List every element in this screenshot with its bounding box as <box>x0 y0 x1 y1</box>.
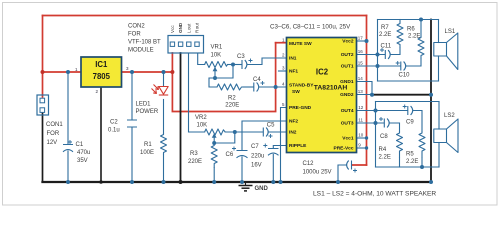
potentiometer VR1 wiper <box>214 71 216 79</box>
svg-text:R3: R3 <box>190 151 198 157</box>
svg-text:C5: C5 <box>267 123 275 129</box>
wire GND2 pin13 net (black) <box>372 94 431 96</box>
svg-text:FOR: FOR <box>128 32 141 38</box>
svg-text:16V: 16V <box>251 163 262 169</box>
svg-text:R4: R4 <box>379 147 387 153</box>
wire IC1 pin2 ground (black) <box>100 87 102 182</box>
capacitor C6 <box>237 151 248 158</box>
svg-text:CON1: CON1 <box>46 122 63 128</box>
svg-text:12V: 12V <box>47 140 58 146</box>
svg-text:Vcc2: Vcc2 <box>342 39 354 45</box>
svg-text:14: 14 <box>358 76 364 81</box>
svg-text:C8: C8 <box>380 134 388 140</box>
svg-text:OUT1: OUT1 <box>341 64 354 70</box>
capacitor C5 <box>263 128 268 137</box>
wire 12V to IC1 pin1 (red) <box>43 71 82 73</box>
wire LS1 bottom rail <box>378 80 439 82</box>
capacitor C11 <box>385 50 390 59</box>
svg-text:10: 10 <box>358 133 364 138</box>
node labels and component value texts <box>46 24 456 198</box>
svg-text:R2: R2 <box>228 96 236 102</box>
svg-text:SW: SW <box>292 89 300 95</box>
capacitor C9 <box>408 106 413 115</box>
svg-text:C11: C11 <box>381 44 392 50</box>
svg-text:470u: 470u <box>77 150 90 156</box>
wire IC2 pin11 stub <box>357 122 384 124</box>
wire C8 to R4 <box>390 123 400 131</box>
wire VR2 wiper loop <box>214 132 235 143</box>
capacitor C3 <box>242 60 247 69</box>
connector CON1 <box>37 95 49 115</box>
wire 5V rail from IC1 pin3 (red) <box>122 71 173 73</box>
wire R3 to bus <box>213 168 215 182</box>
svg-text:STAND-BY: STAND-BY <box>289 83 314 89</box>
wire ground bus (black) <box>43 181 432 183</box>
wire IC2 pin6 to C6 <box>242 121 287 150</box>
svg-text:Vcc1: Vcc1 <box>342 136 354 142</box>
svg-text:RIPPLE: RIPPLE <box>289 143 307 149</box>
wire R7 top <box>399 20 401 22</box>
svg-text:POWER: POWER <box>136 109 159 115</box>
svg-text:NF2: NF2 <box>289 119 298 125</box>
wire CON2 Rout to VR1 <box>198 53 205 65</box>
wire LS2 left vertical <box>375 102 377 168</box>
op-amp U1 power amplifier IC2 TA8210AH <box>282 36 364 153</box>
resistor R7 <box>397 21 403 48</box>
wire IC2 pin1 mute stub (red) <box>276 42 287 44</box>
wire CON2 Vcc drop and standby feed (red) <box>172 43 275 112</box>
wire IC2 pin15 stub <box>357 65 401 67</box>
capacitor C2 <box>127 120 137 127</box>
svg-text:220u: 220u <box>251 154 264 160</box>
wire C9 to R5 <box>413 111 422 132</box>
wire LS1 left vertical <box>377 20 379 82</box>
capacitor C4 <box>254 83 259 92</box>
wire LS2 top rail <box>376 101 440 103</box>
svg-text:C10: C10 <box>399 73 411 79</box>
wire C5 to IC2 pin7 <box>269 131 287 133</box>
wire C12 negative to bus <box>338 165 347 182</box>
svg-text:R6: R6 <box>407 27 415 33</box>
capacitor C7 <box>268 149 279 156</box>
connector CON2 <box>168 36 204 54</box>
svg-text:C9: C9 <box>406 120 414 126</box>
wire IC2 pin5 pre-gnd drop <box>281 108 287 183</box>
wire IC2 pin17 stub <box>357 40 367 42</box>
svg-text:7805: 7805 <box>93 72 111 81</box>
wire VR2 right end to C5 <box>225 131 263 133</box>
potentiometer VR1 <box>205 62 228 68</box>
svg-text:LS1: LS1 <box>445 29 456 35</box>
wire CON1 ground drop (black) <box>42 113 44 182</box>
wire C4 to standby node <box>260 86 287 88</box>
svg-text:R5: R5 <box>406 152 414 158</box>
svg-text:LED1: LED1 <box>136 102 152 108</box>
wire LS1 feed bottom <box>438 56 440 81</box>
svg-text:OUT4: OUT4 <box>341 108 354 114</box>
svg-text:GND: GND <box>255 186 269 192</box>
svg-text:LS2: LS2 <box>444 113 455 119</box>
svg-text:R1: R1 <box>144 142 152 148</box>
wire LED1 feed <box>163 72 165 86</box>
svg-text:GND: GND <box>178 22 183 33</box>
svg-text:2.2E: 2.2E <box>408 34 420 40</box>
capacitor C1 <box>63 145 73 152</box>
svg-text:2.2E: 2.2E <box>379 32 391 38</box>
wire C12 positive link (red) <box>352 164 367 166</box>
svg-text:VR2: VR2 <box>195 115 207 121</box>
svg-text:IN1: IN1 <box>289 56 297 62</box>
svg-text:17: 17 <box>358 36 364 41</box>
wire IC2 pin3 stub <box>279 70 287 72</box>
wire C10 to R6 <box>406 59 421 67</box>
svg-text:10K: 10K <box>197 123 208 129</box>
wire LS2 bottom rail <box>376 166 440 168</box>
svg-text:C12: C12 <box>303 161 315 167</box>
wire R2 to C4 <box>243 86 254 88</box>
svg-text:PRE-GND: PRE-GND <box>289 105 312 111</box>
svg-text:220E: 220E <box>188 159 202 165</box>
svg-text:IC1: IC1 <box>95 60 108 69</box>
IC1 pin number labels <box>75 66 129 94</box>
svg-text:C6: C6 <box>226 152 234 158</box>
capacitor C12 <box>347 161 352 170</box>
capacitor C8 <box>384 119 389 128</box>
wire CON2 GND drop (black) <box>180 53 182 182</box>
svg-text:MODULE: MODULE <box>128 48 154 54</box>
svg-text:2.2E: 2.2E <box>379 155 391 161</box>
LED1 <box>152 85 169 96</box>
wire C6 to bus <box>241 157 243 182</box>
wire IC2 pin10 stub <box>357 137 367 139</box>
resistor R2 <box>217 84 243 90</box>
svg-text:15: 15 <box>358 61 364 66</box>
wire C2 feed <box>131 72 133 182</box>
svg-text:CON2: CON2 <box>128 24 145 30</box>
svg-text:TA8210AH: TA8210AH <box>314 85 348 92</box>
wire C7 to bus <box>272 155 274 183</box>
regulator IC1 7805 <box>81 57 122 87</box>
resistor R3 <box>211 143 217 168</box>
ground symbol <box>239 182 253 191</box>
wire LS1 top rail <box>378 19 439 21</box>
svg-text:PRE-Vcc: PRE-Vcc <box>334 146 354 152</box>
svg-text:11: 11 <box>358 118 363 123</box>
wire Vcc right drop to IC2 (red) <box>366 16 368 166</box>
svg-text:12: 12 <box>358 105 364 110</box>
svg-text:LS1 – LS2 = 4-OHM, 10 WATT SPE: LS1 – LS2 = 4-OHM, 10 WATT SPEAKER <box>313 191 436 198</box>
svg-text:GND1: GND1 <box>340 79 354 85</box>
speaker LS1 <box>434 33 458 70</box>
wire C3 to IC2 pin2 <box>248 58 287 65</box>
svg-text:OUT3: OUT3 <box>341 121 354 127</box>
wire IC2 pin16 stub <box>357 54 385 56</box>
svg-text:NF1: NF1 <box>289 69 298 75</box>
svg-text:16: 16 <box>358 49 364 54</box>
svg-text:1000u 25V: 1000u 25V <box>303 170 332 176</box>
wire speaker return vertical (black) <box>430 20 432 183</box>
svg-text:FOR: FOR <box>47 131 60 137</box>
svg-text:VTF-108 BT: VTF-108 BT <box>128 40 161 46</box>
wire R1 to bus <box>163 155 165 182</box>
wire IC2 pin8 to C7 <box>273 146 286 149</box>
wire IC2 pin9 stub <box>357 147 367 149</box>
svg-text:R out: R out <box>195 22 200 33</box>
wire C11 to R7 <box>391 48 401 55</box>
svg-text:220E: 220E <box>225 103 239 109</box>
svg-text:OUT2: OUT2 <box>341 52 354 58</box>
svg-text:R7: R7 <box>381 25 389 31</box>
svg-text:Vcc: Vcc <box>170 25 175 33</box>
wire +12V top rail (red) <box>43 15 367 17</box>
svg-text:IC2: IC2 <box>316 68 329 77</box>
svg-text:GND2: GND2 <box>340 92 354 98</box>
svg-text:MUTE SW: MUTE SW <box>289 41 312 47</box>
wire IC2 pin13 stub <box>357 94 373 96</box>
svg-text:10K: 10K <box>211 53 222 59</box>
svg-text:IN2: IN2 <box>289 130 297 136</box>
resistor R1 <box>161 133 167 155</box>
resistor R6 <box>418 36 424 59</box>
wire LS1 feed top <box>438 20 440 43</box>
wire VR1 wiper loop <box>215 65 233 79</box>
svg-text:0.1u: 0.1u <box>108 128 120 134</box>
svg-text:C3–C6, C8–C11 = 100u, 25V: C3–C6, C8–C11 = 100u, 25V <box>270 24 351 31</box>
svg-text:C4: C4 <box>253 77 261 83</box>
svg-text:35V: 35V <box>77 158 88 164</box>
wire IC2 pin14 stub <box>357 82 373 95</box>
svg-text:100E: 100E <box>140 150 154 156</box>
svg-text:C2: C2 <box>110 120 118 126</box>
wire C1 feed <box>67 72 69 182</box>
wire +12V left rail (red) <box>42 16 44 98</box>
svg-text:L out: L out <box>186 23 191 33</box>
wire R4 bottom <box>399 158 401 167</box>
wire VR1 right end <box>228 64 242 66</box>
wire R6 top <box>420 20 422 37</box>
svg-text:13: 13 <box>358 89 364 94</box>
resistor R5 <box>419 131 425 158</box>
svg-text:C7: C7 <box>251 144 259 150</box>
wire CON2 Lout to VR2 <box>189 53 205 132</box>
wire R5 bottom <box>421 158 423 167</box>
wire LS2 feed top <box>438 102 440 130</box>
svg-text:C1: C1 <box>76 142 84 148</box>
resistor R4 <box>397 131 403 158</box>
svg-text:C3: C3 <box>237 54 245 60</box>
wire LS2 feed bottom <box>438 143 440 168</box>
svg-text:VR1: VR1 <box>211 45 223 51</box>
potentiometer VR2 wiper <box>213 137 215 143</box>
CON2 rotated pin labels Vcc GND Lout Rout <box>170 22 200 33</box>
speaker LS2 <box>434 119 458 153</box>
capacitor C10 <box>401 62 406 71</box>
potentiometer VR2 <box>205 129 226 135</box>
wire IC2 pin12 stub <box>357 110 408 112</box>
svg-text:2.2E: 2.2E <box>406 159 418 165</box>
wire LED1 to R1 <box>163 100 165 134</box>
wire VR1 wiper to R2 <box>209 78 217 87</box>
